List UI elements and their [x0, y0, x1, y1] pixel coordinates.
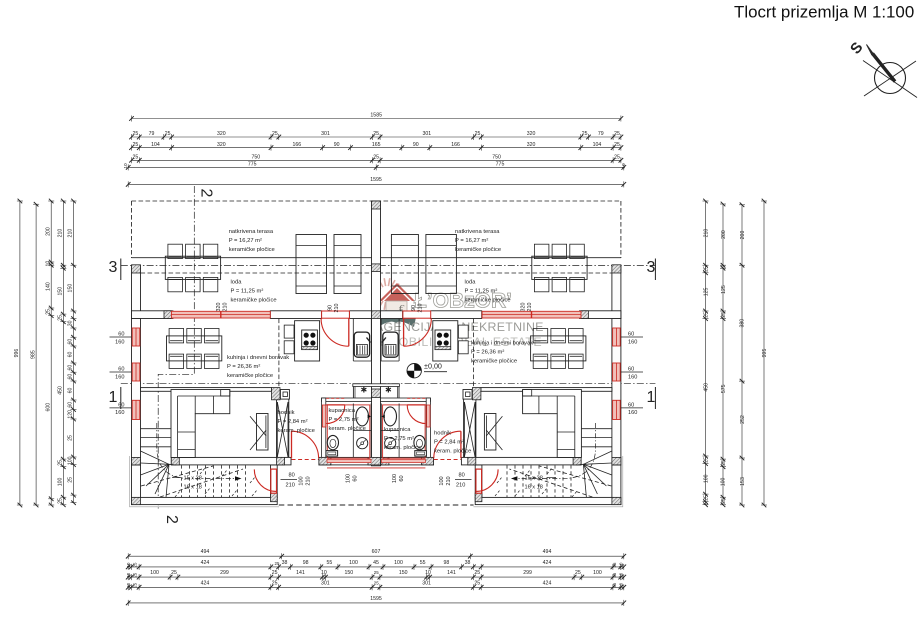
- svg-text:98: 98: [444, 560, 450, 566]
- svg-text:100: 100: [721, 478, 727, 487]
- svg-text:25: 25: [612, 582, 617, 587]
- svg-text:10: 10: [321, 570, 327, 576]
- bathroom door frame band left unit: [322, 405, 325, 427]
- right outer wall stair wing: [612, 465, 621, 505]
- thin outline around left stair wing: [130, 456, 279, 507]
- pier closet top right unit: [472, 388, 481, 400]
- label 60/160 right bedroom: [621, 407, 643, 409]
- svg-text:494: 494: [201, 549, 210, 555]
- left dimension chain 200/10/140/25/600/25: [45, 199, 54, 508]
- svg-text:200: 200: [721, 230, 727, 239]
- thin outline around right stair wing: [473, 456, 622, 507]
- svg-text:natkrivena terasa: natkrivena terasa: [229, 229, 274, 235]
- left dimension chain total 996: [14, 199, 23, 508]
- window 60/160 left wall upper: [132, 328, 140, 346]
- svg-text:1595: 1595: [370, 596, 382, 602]
- staircase left wing: [141, 423, 246, 497]
- svg-text:60: 60: [68, 388, 74, 394]
- pier spine bottom right half: [381, 457, 389, 465]
- pier spine at bottom wall: [368, 457, 381, 465]
- svg-text:100: 100: [150, 570, 159, 576]
- svg-text:P = 2,84 m²: P = 2,84 m²: [434, 440, 464, 446]
- red inner outline bathroom right: [383, 405, 426, 458]
- right porch door wall: [475, 465, 482, 497]
- svg-text:140: 140: [45, 282, 51, 291]
- svg-text:166: 166: [451, 142, 460, 148]
- section marker 1 right: [647, 387, 656, 409]
- svg-text:210: 210: [58, 229, 64, 238]
- svg-text:424: 424: [201, 580, 210, 586]
- svg-text:100: 100: [68, 456, 74, 465]
- svg-text:25: 25: [133, 142, 139, 148]
- svg-text:hodnik: hodnik: [278, 410, 295, 416]
- svg-text:25: 25: [703, 495, 709, 501]
- svg-text:60: 60: [118, 367, 124, 373]
- bathroom fixtures right unit washbasin washing-machine WC: [381, 404, 426, 458]
- svg-text:301: 301: [321, 131, 330, 137]
- window 60/160 left wall middle: [132, 363, 140, 381]
- sun lounger left unit B: [334, 235, 361, 294]
- svg-text:100: 100: [349, 560, 358, 566]
- svg-text:607: 607: [372, 549, 381, 555]
- terrace table with six chairs right unit: [532, 244, 587, 292]
- svg-text:100: 100: [392, 474, 398, 483]
- right outer wall living zone: [612, 319, 621, 466]
- hall door 100/210 left unit: [292, 431, 319, 459]
- level marker plus-minus 0,00: [407, 361, 447, 378]
- svg-text:160: 160: [115, 339, 124, 345]
- svg-text:60: 60: [68, 352, 74, 358]
- sun lounger right unit A: [391, 235, 418, 294]
- room label kupaonica right unit: [384, 427, 421, 451]
- svg-text:985: 985: [30, 350, 36, 359]
- room label kupaonica left unit: [329, 408, 366, 432]
- svg-text:320: 320: [217, 131, 226, 137]
- svg-text:10: 10: [619, 582, 624, 587]
- bathroom top wall left unit: [322, 398, 372, 401]
- pier hall-closet bottom right: [468, 457, 476, 465]
- front loggia wall right-inner segment: [381, 311, 403, 319]
- svg-text:1: 1: [647, 389, 656, 406]
- left outer wall living zone: [132, 319, 141, 466]
- svg-text:450: 450: [703, 383, 709, 392]
- svg-text:3: 3: [647, 259, 656, 276]
- svg-text:80: 80: [459, 473, 465, 479]
- svg-text:60: 60: [353, 475, 359, 481]
- svg-text:kuhinja i dnevni boravak: kuhinja i dnevni boravak: [227, 355, 289, 361]
- room label kuhinja i dnevni boravak left unit: [227, 355, 289, 379]
- pier bath bottom right unit: [422, 457, 434, 465]
- section marker 1 left: [109, 387, 121, 409]
- svg-text:10: 10: [123, 163, 129, 169]
- porch dash marks right: [495, 468, 577, 497]
- svg-text:200: 200: [45, 227, 51, 236]
- top dimension chain 25/79/25/320/25/301...: [129, 131, 623, 140]
- svg-text:25: 25: [721, 498, 727, 504]
- svg-text:125: 125: [703, 287, 709, 296]
- svg-text:P = 26,36 m²: P = 26,36 m²: [227, 364, 260, 370]
- bathroom door right unit: [407, 398, 426, 423]
- sliding window 320/210 right unit: [482, 311, 581, 318]
- svg-text:keramičke pločice: keramičke pločice: [227, 373, 273, 379]
- svg-text:10: 10: [126, 582, 131, 587]
- sun lounger left unit A: [296, 235, 327, 294]
- svg-text:100: 100: [346, 474, 352, 483]
- svg-text:90: 90: [411, 305, 417, 311]
- entrance door 90/210 left unit from loggia: [321, 311, 349, 346]
- svg-text:150: 150: [399, 570, 408, 576]
- corner sofa left unit: [171, 390, 230, 458]
- svg-text:25: 25: [58, 460, 64, 466]
- label 60/160 left upper: [110, 336, 132, 338]
- svg-text:424: 424: [201, 560, 210, 566]
- right loggia side wall: [612, 265, 621, 318]
- sliding window 320/210 left unit: [171, 311, 270, 318]
- red sill band under bathroom left: [327, 459, 371, 462]
- bathroom door left unit: [326, 398, 345, 423]
- svg-text:45: 45: [373, 560, 379, 566]
- svg-text:25: 25: [721, 312, 727, 318]
- svg-text:380: 380: [740, 319, 746, 328]
- svg-text:60: 60: [118, 402, 124, 408]
- section marker 3 left: [109, 259, 121, 281]
- shaft box right unit: [463, 390, 472, 400]
- svg-text:25: 25: [703, 312, 709, 318]
- closet wall lines right unit: [475, 391, 477, 457]
- shaft box left unit: [280, 390, 289, 400]
- pier right loggia corner: [612, 265, 621, 273]
- top dimension chain 25/750/25/750/25: [129, 155, 623, 164]
- bottom dimension chain 424/38/98/55/100/45...: [126, 560, 626, 570]
- svg-text:25: 25: [373, 155, 379, 161]
- svg-text:60: 60: [628, 332, 634, 338]
- svg-text:lođa: lođa: [465, 280, 477, 286]
- section line 2-2 vertical with jog: [158, 186, 194, 509]
- bottom dimension chain total 1595: [126, 596, 626, 606]
- left porch door wall: [271, 465, 278, 497]
- svg-text:60: 60: [68, 365, 74, 371]
- entry door 80/210 right unit with arc: [476, 469, 498, 493]
- svg-text:hodnik: hodnik: [434, 431, 451, 437]
- porch roof dashed line bottom: [279, 504, 474, 506]
- section marker 3 right: [647, 259, 656, 281]
- svg-text:301: 301: [321, 580, 330, 586]
- kitchen dashed boundary left unit: [278, 319, 280, 388]
- svg-text:120: 120: [68, 410, 74, 419]
- svg-text:299: 299: [220, 570, 229, 576]
- svg-text:494: 494: [543, 549, 552, 555]
- room label natkrivena terasa right unit: [455, 229, 501, 253]
- bathroom top wall right unit: [381, 398, 431, 401]
- left dimension chain 210/10/150/25/450/25/100/25: [57, 199, 66, 507]
- svg-text:141: 141: [447, 570, 456, 576]
- pier right wall at bedroom bottom: [612, 457, 621, 465]
- svg-text:10: 10: [126, 562, 131, 567]
- section line 3-3 dash-dot horizontal: [121, 264, 656, 266]
- bottom wall under bedroom left unit: [171, 457, 291, 465]
- kitchen dashed boundary right unit: [473, 319, 475, 388]
- red slab edge line below bathrooms: [327, 467, 425, 469]
- svg-text:38: 38: [465, 560, 471, 566]
- bathroom right wall right unit: [426, 398, 430, 458]
- label 60/160 right upper: [621, 336, 643, 338]
- svg-text:38: 38: [282, 560, 288, 566]
- bathroom left wall left unit: [322, 398, 326, 458]
- svg-text:98: 98: [303, 560, 309, 566]
- svg-text:166: 166: [292, 142, 301, 148]
- right dimension chain 200/380/252/153: [739, 203, 746, 508]
- svg-text:60: 60: [628, 367, 634, 373]
- entrance door 90/210 right unit from loggia: [403, 311, 431, 346]
- svg-text:165: 165: [372, 142, 381, 148]
- bottom dimension chain 494/607/494: [126, 549, 626, 559]
- svg-text:25: 25: [272, 570, 278, 576]
- svg-text:kuhinja i dnevni boravak: kuhinja i dnevni boravak: [471, 341, 533, 347]
- pier bedroom-bottom left unit: [171, 457, 179, 465]
- left dimension chain 210/150/25/30/60s/120/25/100/25: [68, 199, 77, 505]
- niche side stub left: [352, 387, 354, 399]
- svg-text:153: 153: [740, 477, 746, 486]
- svg-text:320: 320: [527, 142, 536, 148]
- svg-text:210: 210: [223, 303, 229, 312]
- bottom dimension chain 424/25/301/25/301/25/424: [126, 580, 626, 590]
- right dimension chain total 995: [761, 199, 768, 508]
- svg-text:104: 104: [593, 142, 602, 148]
- svg-text:kupaonica: kupaonica: [329, 408, 356, 414]
- staircase right wing: [507, 423, 612, 497]
- svg-text:100: 100: [593, 570, 602, 576]
- svg-text:100: 100: [57, 478, 63, 487]
- kitchen counter stove and sink right unit: [381, 319, 468, 362]
- svg-text:25: 25: [45, 309, 51, 315]
- svg-text:450: 450: [58, 386, 64, 395]
- svg-text:10: 10: [619, 562, 624, 567]
- terrace table with six chairs left unit: [165, 244, 220, 292]
- svg-text:P = 26,36 m²: P = 26,36 m²: [471, 350, 504, 356]
- svg-text:320: 320: [216, 303, 222, 312]
- svg-text:10: 10: [126, 572, 131, 577]
- niche wall above bathrooms: [353, 384, 400, 387]
- svg-text:10: 10: [621, 163, 627, 169]
- svg-text:P = 11,25 m²: P = 11,25 m²: [231, 289, 264, 295]
- svg-text:25: 25: [374, 580, 379, 585]
- pier left porch wall bottom: [271, 493, 278, 502]
- left dimension chain 985: [30, 202, 39, 507]
- window 60/160 right wall upper: [613, 328, 621, 346]
- pier front wall right: [579, 311, 588, 319]
- pier hall-closet bottom left: [277, 457, 285, 465]
- svg-text:25: 25: [474, 580, 480, 586]
- room label hodnik right unit: [434, 431, 471, 455]
- svg-text:25: 25: [133, 131, 139, 137]
- svg-text:104: 104: [151, 142, 160, 148]
- svg-text:210: 210: [334, 304, 340, 313]
- svg-text:keram. pločice: keram. pločice: [278, 428, 315, 434]
- pier spine at front wall: [372, 311, 381, 319]
- svg-text:424: 424: [543, 580, 552, 586]
- window 60/160 left wall bedroom: [132, 400, 140, 419]
- svg-text:25: 25: [703, 457, 709, 463]
- svg-text:10: 10: [619, 572, 624, 577]
- svg-text:25: 25: [272, 131, 278, 137]
- svg-text:160: 160: [115, 374, 124, 380]
- bottom wall left stair wing: [132, 497, 278, 504]
- svg-text:299: 299: [523, 570, 532, 576]
- top dimension chain total 1585: [129, 113, 623, 122]
- svg-text:25: 25: [374, 570, 379, 575]
- bathroom door frame band right unit: [427, 405, 430, 427]
- svg-text:25: 25: [612, 562, 617, 567]
- right dimension chain 210/25/125/25/450/25/100/25/10: [703, 199, 710, 507]
- svg-text:55: 55: [327, 560, 333, 566]
- section line 1-1 dash-dot horizontal: [121, 383, 656, 385]
- pier bedroom-bottom right unit: [573, 457, 581, 465]
- svg-text:600: 600: [45, 403, 51, 412]
- svg-text:25: 25: [165, 131, 171, 137]
- window 60/160 right wall bedroom: [613, 400, 621, 419]
- svg-text:60: 60: [118, 332, 124, 338]
- svg-text:P = 2,84 m²: P = 2,84 m²: [278, 419, 308, 425]
- right dimension chain 200/10/125/25/575/25/100/25: [720, 202, 727, 507]
- svg-text:25: 25: [275, 561, 280, 566]
- svg-text:25: 25: [133, 562, 138, 567]
- svg-text:996: 996: [14, 349, 20, 358]
- svg-text:210: 210: [418, 304, 424, 313]
- svg-text:210: 210: [527, 303, 533, 312]
- svg-text:60: 60: [399, 475, 405, 481]
- svg-text:keram. pločice: keram. pločice: [329, 426, 366, 432]
- svg-text:25: 25: [582, 131, 588, 137]
- svg-text:P = 11,25 m²: P = 11,25 m²: [465, 289, 498, 295]
- svg-text:141: 141: [296, 570, 305, 576]
- wardrobe left unit: [250, 414, 268, 451]
- pier spine at interior wall: [372, 389, 381, 398]
- bathroom fixtures left unit washbasin washing-machine WC: [326, 404, 371, 458]
- svg-text:25: 25: [614, 131, 620, 137]
- red sill band under bathroom right: [381, 459, 425, 462]
- svg-text:1: 1: [109, 389, 118, 406]
- svg-text:60: 60: [628, 402, 634, 408]
- svg-text:160: 160: [628, 374, 637, 380]
- svg-text:90: 90: [413, 142, 419, 148]
- wardrobe right unit: [484, 414, 502, 451]
- roof overhang dashed left edge: [131, 201, 133, 258]
- svg-text:P = 2,75 m²: P = 2,75 m²: [384, 436, 414, 442]
- svg-text:775: 775: [496, 162, 505, 168]
- svg-text:90: 90: [328, 305, 334, 311]
- svg-text:25: 25: [68, 477, 74, 483]
- svg-text:15 x 28: 15 x 28: [525, 475, 543, 481]
- label 60/160 left bedroom: [110, 407, 132, 409]
- hall door 100/210 right unit: [434, 431, 461, 459]
- pier right porch wall bottom: [475, 493, 482, 502]
- bedroom top wall left unit: [141, 388, 272, 392]
- entry door 80/210 left unit with arc: [254, 469, 276, 493]
- svg-text:P = 16,27 m²: P = 16,27 m²: [229, 238, 262, 244]
- svg-text:✱: ✱: [385, 385, 392, 394]
- svg-text:160: 160: [115, 410, 124, 416]
- label 60/160 left middle: [110, 371, 132, 373]
- svg-text:210: 210: [306, 476, 312, 485]
- watermark logo sunburst and red house icon: [371, 278, 416, 327]
- window 60/160 right wall middle: [613, 363, 621, 381]
- svg-text:25: 25: [171, 570, 177, 576]
- svg-text:±0,00: ±0,00: [424, 361, 442, 370]
- terrace front edge line: [132, 257, 621, 259]
- pier left wall bottom corner: [132, 497, 141, 504]
- svg-text:16 x 18: 16 x 18: [184, 484, 202, 490]
- pier right wall bottom corner: [612, 497, 621, 504]
- built-in closet with cross right unit: [464, 402, 475, 457]
- svg-text:100: 100: [299, 476, 305, 485]
- svg-text:10: 10: [45, 261, 51, 267]
- svg-text:125: 125: [721, 285, 727, 294]
- niche side stub right: [398, 387, 400, 399]
- svg-text:25: 25: [133, 572, 138, 577]
- svg-text:25: 25: [133, 155, 139, 161]
- svg-text:15 x 28: 15 x 28: [184, 475, 202, 481]
- svg-text:kupaonica: kupaonica: [384, 427, 411, 433]
- svg-text:10: 10: [425, 570, 431, 576]
- svg-text:210: 210: [446, 476, 452, 485]
- room label kuhinja i dnevni boravak right unit: [471, 341, 533, 365]
- svg-text:25: 25: [614, 142, 620, 148]
- sun lounger right unit B: [426, 235, 457, 294]
- svg-text:25: 25: [721, 460, 727, 466]
- svg-text:3: 3: [109, 259, 118, 276]
- svg-text:✱: ✱: [361, 385, 368, 394]
- svg-text:575: 575: [721, 384, 727, 393]
- svg-text:keramičke pločice: keramičke pločice: [471, 359, 517, 365]
- svg-text:100: 100: [394, 560, 403, 566]
- svg-text:60: 60: [68, 374, 74, 380]
- svg-text:16 x 18: 16 x 18: [525, 484, 543, 490]
- svg-text:30: 30: [68, 320, 74, 326]
- svg-text:210: 210: [68, 229, 74, 238]
- top dimension chain total 1595: [126, 177, 626, 187]
- roof overhang dashed outline top: [132, 200, 621, 202]
- svg-text:750: 750: [251, 155, 260, 161]
- svg-text:150: 150: [68, 284, 74, 293]
- svg-text:301: 301: [422, 580, 431, 586]
- svg-text:25: 25: [58, 315, 64, 321]
- room label hodnik left unit: [278, 410, 315, 434]
- svg-text:200: 200: [740, 231, 746, 240]
- svg-text:keramičke pločice: keramičke pločice: [229, 247, 275, 253]
- svg-text:25: 25: [133, 582, 138, 587]
- svg-text:keram. pločice: keram. pločice: [434, 449, 471, 455]
- svg-text:160: 160: [628, 339, 637, 345]
- svg-text:160: 160: [628, 410, 637, 416]
- porch dash marks left: [175, 468, 257, 497]
- front loggia wall left segment: [132, 311, 172, 319]
- svg-text:252: 252: [740, 415, 746, 424]
- svg-text:25: 25: [614, 155, 620, 161]
- left loggia side wall: [132, 265, 141, 318]
- built-in closet with cross left unit: [277, 402, 288, 457]
- svg-text:320: 320: [217, 142, 226, 148]
- svg-text:210: 210: [456, 483, 465, 489]
- svg-text:25: 25: [612, 572, 617, 577]
- red inner outline bathroom left: [327, 405, 370, 458]
- north arrow compass with S label: [847, 39, 917, 98]
- svg-text:60: 60: [68, 402, 74, 408]
- svg-text:25: 25: [475, 131, 481, 137]
- bottom wall under bathroom left unit: [319, 457, 372, 465]
- svg-text:1585: 1585: [370, 113, 382, 119]
- svg-text:150: 150: [58, 287, 64, 296]
- svg-text:750: 750: [492, 155, 501, 161]
